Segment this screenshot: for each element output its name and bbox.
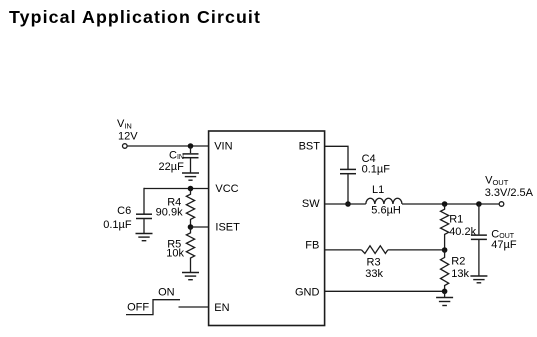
output terminal VOUT xyxy=(499,202,504,207)
svg-text:VCC: VCC xyxy=(215,183,238,195)
label C4 0.1µF xyxy=(362,153,391,175)
pin label GND xyxy=(295,286,320,298)
svg-text:VOUT: VOUT xyxy=(485,175,509,188)
wire EN xyxy=(179,306,210,308)
svg-text:90.9k: 90.9k xyxy=(156,207,183,219)
pin label BST xyxy=(299,141,321,153)
label R1 40.2k xyxy=(449,214,476,239)
capacitor COUT xyxy=(471,204,487,276)
svg-text:L1: L1 xyxy=(372,184,384,196)
resistor R5 xyxy=(186,227,194,273)
pin label EN xyxy=(214,302,229,314)
svg-text:47µF: 47µF xyxy=(491,239,517,251)
junction VCC/R4 xyxy=(188,186,194,192)
resistor R4 xyxy=(186,189,194,228)
pin label VIN xyxy=(214,141,232,153)
wire GND xyxy=(325,290,445,292)
label R5 10k xyxy=(166,239,184,260)
wire L1 to output xyxy=(402,203,499,205)
svg-text:FB: FB xyxy=(305,240,319,252)
label COUT 47µF xyxy=(491,228,517,251)
label OFF xyxy=(127,301,149,313)
svg-text:R1: R1 xyxy=(449,214,463,226)
pin label VCC xyxy=(215,183,238,195)
svg-text:10k: 10k xyxy=(166,248,184,260)
inductor L1 xyxy=(366,198,402,204)
junction FB node xyxy=(442,247,448,253)
label ON xyxy=(158,286,175,298)
svg-text:ON: ON xyxy=(158,286,175,298)
junction R1 top xyxy=(442,201,448,207)
input terminal VIN xyxy=(123,144,128,149)
wire FB xyxy=(325,249,362,251)
svg-text:0.1µF: 0.1µF xyxy=(362,163,391,175)
pin label ISET xyxy=(215,221,240,233)
svg-text:3.3V/2.5A: 3.3V/2.5A xyxy=(485,187,534,199)
svg-text:CIN: CIN xyxy=(169,149,184,161)
svg-text:12V: 12V xyxy=(118,130,138,142)
svg-text:22µF: 22µF xyxy=(159,161,185,173)
capacitor C6 xyxy=(136,188,152,234)
svg-text:0.1µF: 0.1µF xyxy=(103,219,132,231)
svg-text:EN: EN xyxy=(214,302,229,314)
label R4 90.9k xyxy=(156,196,183,218)
label L1 5.6µH xyxy=(371,184,401,217)
junction VIN/CIN xyxy=(188,143,194,149)
IC U1 xyxy=(209,131,325,326)
wire C4 to SW xyxy=(347,174,349,204)
svg-text:R2: R2 xyxy=(451,256,465,268)
svg-text:5.6µH: 5.6µH xyxy=(371,205,401,217)
svg-text:33k: 33k xyxy=(365,268,383,280)
label R3 33k xyxy=(365,257,383,281)
ground under R5 xyxy=(182,273,199,280)
ON/OFF control waveform xyxy=(126,300,180,315)
label C6 0.1µF xyxy=(103,205,132,231)
label VOUT 3.3V/2.5A xyxy=(485,175,534,199)
junction ISET/R5 xyxy=(188,224,194,230)
svg-text:13k: 13k xyxy=(451,268,469,280)
wire BST xyxy=(325,146,348,169)
label R2 13k xyxy=(451,256,469,280)
ground under CIN xyxy=(182,173,199,180)
svg-text:BST: BST xyxy=(299,141,321,153)
junction GND node xyxy=(442,289,448,295)
resistor R2 xyxy=(441,250,449,291)
capacitor CIN xyxy=(183,146,199,173)
resistor R3 xyxy=(362,246,388,254)
wire SW xyxy=(325,203,366,205)
ground under COUT xyxy=(470,276,487,283)
svg-text:GND: GND xyxy=(295,286,320,298)
svg-text:40.2k: 40.2k xyxy=(449,226,476,238)
junction SW/C4 xyxy=(345,201,351,207)
wire ISET xyxy=(191,226,210,228)
svg-text:VIN: VIN xyxy=(117,118,132,131)
pin label FB xyxy=(305,240,319,252)
capacitor C4 xyxy=(340,169,356,173)
ground under R2 xyxy=(436,291,453,305)
svg-text:VIN: VIN xyxy=(214,141,232,153)
svg-text:OFF: OFF xyxy=(127,301,149,313)
svg-text:R3: R3 xyxy=(367,257,381,269)
svg-text:ISET: ISET xyxy=(215,221,240,233)
svg-text:SW: SW xyxy=(302,198,320,210)
label VIN 12V xyxy=(117,118,138,142)
wire R3 to FB node xyxy=(388,249,445,251)
junction COUT top xyxy=(476,201,482,207)
pin label SW xyxy=(302,198,320,210)
label CIN 22µF xyxy=(159,149,185,173)
ground under C6 xyxy=(136,234,153,241)
wire VCC xyxy=(144,188,209,190)
resistor R1 xyxy=(441,204,449,250)
wire VIN input xyxy=(127,145,209,147)
svg-text:C6: C6 xyxy=(117,205,131,217)
